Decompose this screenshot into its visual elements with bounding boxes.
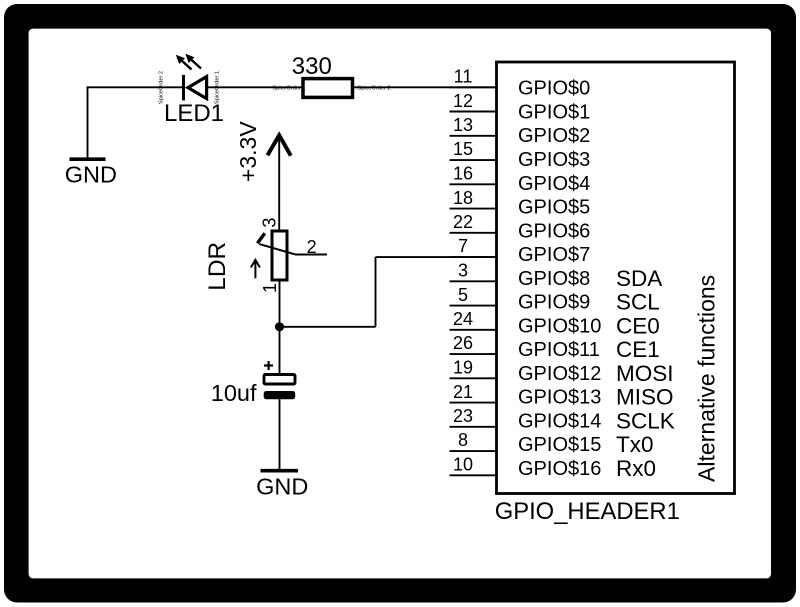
svg-text:GPIO_HEADER1: GPIO_HEADER1 [495,498,680,525]
pin 21 stub [450,402,498,404]
pin 12 stub [450,111,498,113]
svg-text:23: 23 [453,406,473,426]
svg-text:GPIO$1: GPIO$1 [518,102,590,124]
svg-text:330: 330 [292,53,332,80]
svg-text:GPIO$5: GPIO$5 [518,197,590,219]
svg-text:15: 15 [453,139,473,159]
wire: junction right [280,326,376,328]
svg-text:SpiceOrder 1: SpiceOrder 1 [273,86,306,92]
pin 11 stub [450,86,498,88]
svg-text:CE0: CE0 [616,313,660,338]
wire: cap to GND2 [279,399,281,470]
wire: LDR pin 2 stub [295,254,327,256]
ground GND (bottom) [256,471,308,500]
svg-text:GND: GND [65,162,117,188]
pin 26 stub [450,353,498,355]
svg-text:GPIO$10: GPIO$10 [518,315,601,337]
svg-text:MISO: MISO [616,385,674,410]
svg-text:11: 11 [454,67,473,87]
wire: to header pin 7 [376,256,498,258]
svg-text:SpiceOrder 1: SpiceOrder 1 [215,71,221,104]
power +3.3V supply arrow [268,135,291,231]
svg-text:MOSI: MOSI [616,361,674,386]
pin 16 stub [450,183,498,185]
ground GND (left) [65,159,117,187]
LDR photoresistor body [257,231,295,280]
wire: LDR bottom to junction [279,280,281,375]
svg-text:CE1: CE1 [616,337,660,362]
capacitor 10uf (polarized) [264,361,296,399]
svg-text:SCLK: SCLK [616,409,675,434]
svg-text:GPIO$16: GPIO$16 [518,458,601,480]
svg-text:+3.3V: +3.3V [235,121,261,182]
resistor 330 [303,79,353,98]
pin 18 stub [450,208,498,210]
wire: GND1 to LED cathode [88,87,184,158]
pin 19 stub [450,377,498,379]
wire: riser [375,257,377,327]
wire: resistor to header pin 11 [353,86,498,88]
svg-text:7: 7 [458,236,468,256]
svg-text:GPIO$0: GPIO$0 [518,78,590,100]
svg-text:GPIO$11: GPIO$11 [518,339,600,361]
pin 10 stub [450,474,498,476]
pin 15 stub [450,159,498,161]
LDR arrow (light) [251,260,260,279]
svg-text:GPIO$8: GPIO$8 [518,268,590,290]
svg-text:5: 5 [458,285,468,305]
pin 7 stub [450,256,498,258]
svg-text:3: 3 [458,261,468,281]
svg-text:GPIO$12: GPIO$12 [518,363,601,385]
svg-text:Alternative functions: Alternative functions [694,275,720,482]
LED LED1 [176,54,207,101]
svg-text:GPIO$4: GPIO$4 [518,173,590,195]
svg-text:SDA: SDA [616,266,662,291]
svg-text:12: 12 [453,91,473,111]
svg-text:GPIO$15: GPIO$15 [518,434,601,456]
svg-text:10uf: 10uf [211,380,257,406]
svg-text:GPIO$14: GPIO$14 [518,411,601,433]
wire: LED anode to resistor [207,86,304,88]
svg-text:SpiceOrder 2: SpiceOrder 2 [358,86,391,92]
pin 5 stub [450,305,498,307]
svg-text:LDR: LDR [204,242,231,291]
svg-text:19: 19 [453,358,473,378]
pin 13 stub [450,135,498,137]
pin 8 stub [450,450,498,452]
svg-text:1: 1 [260,283,280,293]
svg-text:GPIO$9: GPIO$9 [518,292,590,314]
svg-text:Tx0: Tx0 [616,432,654,457]
svg-text:GND: GND [256,474,308,500]
node junction (LDR/cap divider) [275,322,284,331]
svg-text:8: 8 [458,430,468,450]
svg-text:10: 10 [453,455,473,475]
svg-text:24: 24 [453,309,473,329]
svg-text:22: 22 [453,212,473,232]
svg-text:13: 13 [453,115,473,135]
pin 23 stub [450,426,498,428]
pin 24 stub [450,329,498,331]
svg-text:18: 18 [453,188,473,208]
svg-text:SpiceOrder 2: SpiceOrder 2 [159,71,165,104]
svg-text:Rx0: Rx0 [616,456,656,481]
svg-text:16: 16 [453,164,473,184]
svg-text:GPIO$13: GPIO$13 [518,387,601,409]
svg-text:26: 26 [453,333,473,353]
svg-text:SCL: SCL [616,290,660,315]
pin 3 stub [450,280,498,282]
svg-text:GPIO$3: GPIO$3 [518,149,590,171]
svg-text:GPIO$6: GPIO$6 [518,220,590,242]
svg-text:21: 21 [453,382,473,402]
svg-text:3: 3 [260,218,280,228]
pin 22 stub [450,232,498,234]
IC GPIO_HEADER1 body [497,62,735,494]
svg-text:GPIO$7: GPIO$7 [518,244,590,266]
svg-text:GPIO$2: GPIO$2 [518,125,590,147]
